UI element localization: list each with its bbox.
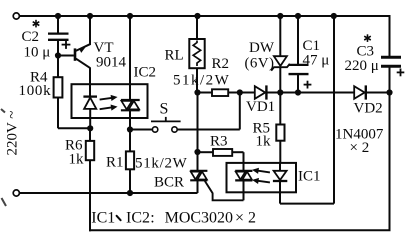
arrow IC2 light 1	[99, 94, 118, 103]
resistor R1	[126, 130, 134, 194]
triac in IC2	[121, 100, 140, 110]
svg-text:VD2: VD2	[354, 101, 383, 117]
svg-text:× 2: × 2	[235, 209, 256, 226]
node C1 / bus	[295, 89, 301, 95]
scan artifact left lower	[2, 198, 7, 206]
wire right edge (C3 to bottom corner)	[389, 66, 391, 230]
diode LED in IC1	[273, 163, 287, 204]
terminal lower 220V	[13, 190, 19, 196]
wire IC1 LED to trigger riser	[280, 203, 334, 205]
arrow IC1 light 1	[252, 167, 271, 176]
terminal upper 220V	[13, 13, 19, 19]
node top rail / C1	[295, 13, 301, 19]
svg-text:10 μ: 10 μ	[24, 45, 51, 61]
svg-text:(6V): (6V)	[245, 56, 275, 72]
wire VT collector to IC2 LED	[89, 67, 91, 96]
svg-text:IC1: IC1	[91, 209, 115, 226]
svg-text:220 μ: 220 μ	[345, 58, 379, 74]
wire frame left riser	[89, 193, 91, 231]
diode VD1	[255, 85, 280, 99]
svg-text:47 μ: 47 μ	[303, 53, 330, 69]
diode VD2	[354, 85, 389, 99]
node top rail / VT emitter	[87, 13, 93, 19]
resistor R5	[276, 93, 284, 163]
svg-text:VD1: VD1	[246, 99, 275, 115]
op-coupler IC1 box	[227, 163, 297, 192]
arrow IC1 light 2	[252, 177, 271, 186]
wire bottom border	[89, 229, 391, 231]
label star C2	[33, 20, 40, 28]
wire BCR gate	[205, 181, 244, 200]
triac in IC1	[235, 171, 252, 200]
svg-text:DW: DW	[249, 40, 275, 56]
capacitor C2	[48, 16, 70, 56]
wire R4 to LED cathode	[58, 127, 90, 129]
arrow IC2 light 2	[99, 104, 118, 113]
svg-text:220V ~: 220V ~	[5, 111, 21, 156]
svg-text:1k: 1k	[256, 134, 272, 150]
switch S	[151, 117, 181, 132]
node top rail / RL	[194, 13, 200, 19]
node switch branch	[127, 126, 133, 132]
node RL / R2 / BCR line	[194, 89, 200, 95]
scan artifact left upper	[1, 109, 5, 113]
svg-text:R3: R3	[210, 134, 228, 150]
op-coupler IC2 box	[72, 84, 148, 118]
wire bottom rail	[20, 192, 198, 194]
svg-text:100k: 100k	[19, 83, 52, 99]
node R1 / bottom rail	[127, 190, 133, 196]
triac BCR	[190, 171, 207, 193]
wire BCR anode	[197, 152, 199, 171]
svg-text:R1: R1	[106, 155, 124, 171]
node top rail / DW	[277, 13, 283, 19]
svg-text:C2: C2	[22, 29, 40, 45]
wire IC2 triac bottom	[129, 110, 131, 129]
node top rail / C2	[55, 13, 61, 19]
svg-text:RL: RL	[165, 48, 184, 64]
zener DW	[271, 16, 290, 93]
transistor VT (9014)	[75, 16, 90, 68]
svg-text:1k: 1k	[69, 152, 85, 168]
wire VT base	[58, 55, 74, 57]
node top rail / trigger line	[331, 13, 337, 19]
diode LED in IC2	[83, 97, 97, 129]
wire VD1 node to C1 node	[280, 92, 298, 94]
wire IC2 triac top	[129, 16, 131, 100]
wire top rail	[20, 15, 391, 17]
label star C3	[364, 34, 371, 42]
wire trigger riser to top rail	[333, 16, 335, 204]
node R3 / BCR	[194, 149, 200, 155]
svg-text:51k/2W: 51k/2W	[173, 73, 230, 89]
svg-text:51k/2W: 51k/2W	[135, 156, 188, 172]
svg-text:IC1: IC1	[298, 169, 321, 185]
resistor R2	[198, 89, 255, 96]
capacitor C1	[289, 16, 312, 93]
node top rail / IC2 triac	[127, 13, 133, 19]
svg-text:S: S	[160, 101, 169, 118]
resistor R6	[86, 128, 94, 193]
node VD1 / DW / R5	[277, 89, 283, 95]
node C2 / R4 / VT base	[55, 52, 61, 58]
wire BCR line (bus to R3 node)	[197, 93, 199, 153]
capacitor C3	[381, 57, 404, 76]
wire switch to riser	[177, 129, 240, 131]
svg-text:IC2: IC2	[126, 209, 150, 226]
node R2 / VD1 / switch riser	[237, 89, 243, 95]
resistor RL	[189, 16, 204, 93]
svg-text:IC2: IC2	[134, 65, 157, 81]
svg-text:BCR: BCR	[154, 175, 184, 191]
wire R3 to IC1 triac top	[243, 152, 245, 171]
node R4 / IC2 LED / R6	[87, 125, 93, 131]
resistor R3	[198, 149, 244, 156]
wire C1 node to VD2	[298, 92, 354, 94]
svg-text:MOC3020: MOC3020	[165, 209, 233, 226]
svg-text:× 2: × 2	[350, 140, 370, 156]
svg-text:9014: 9014	[96, 55, 127, 71]
node VD2 / C3 / frame	[386, 89, 392, 95]
label ideographic comma	[117, 216, 121, 220]
svg-text:R2: R2	[212, 56, 230, 72]
wire right edge top (to C3)	[389, 16, 391, 57]
svg-text::: :	[150, 209, 154, 226]
wire riser to R2/VD1 node	[239, 93, 241, 130]
wire to switch	[130, 129, 152, 131]
resistor R4	[54, 56, 63, 129]
